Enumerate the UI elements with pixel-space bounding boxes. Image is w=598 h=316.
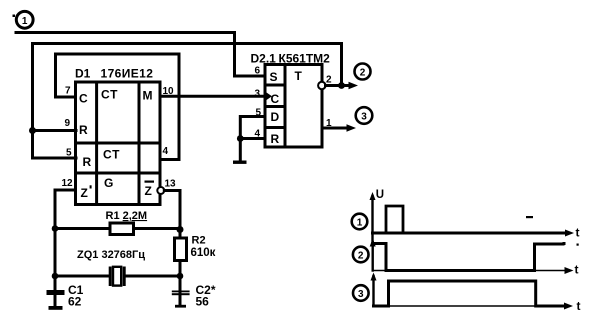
crystal left plate: [109, 268, 112, 285]
svg-text:R1 2,2М: R1 2,2М: [106, 210, 148, 222]
arrow pin 2: [349, 82, 359, 89]
svg-text:S: S: [270, 70, 278, 84]
svg-text:1: 1: [326, 118, 332, 129]
svg-text:D1: D1: [75, 67, 91, 81]
D2 pin numbers: [255, 66, 333, 140]
junction crystal left: [52, 273, 59, 280]
svg-text:M: M: [143, 89, 153, 103]
svg-text:R2: R2: [192, 235, 206, 247]
svg-text:3: 3: [358, 289, 364, 300]
labels D1: [75, 67, 153, 201]
wire right rail below R2: [179, 261, 182, 291]
svg-text:D2.1: D2.1: [251, 52, 277, 66]
wire R1 left: [55, 227, 110, 230]
svg-text:ZQ1 32768Гц: ZQ1 32768Гц: [77, 249, 145, 261]
svg-text:9: 9: [65, 118, 71, 129]
svg-text:13: 13: [165, 179, 177, 190]
axis waveform 2: [372, 242, 374, 271]
junction pin4 ground: [237, 135, 244, 142]
timing diagram: [352, 192, 574, 310]
svg-text:3: 3: [255, 89, 261, 100]
node 1 input marker circle: [16, 11, 33, 28]
wire pin 13 down right rail: [164, 191, 180, 239]
wire pin 5 D to ground: [240, 117, 265, 161]
svg-text:t: t: [575, 263, 579, 277]
svg-text:2: 2: [358, 251, 364, 262]
crystal body: [113, 267, 121, 286]
D2 cell divider D/R: [265, 126, 285, 129]
baseline waveform 1: [373, 232, 568, 235]
pin 13 inversion circle: [157, 187, 164, 194]
pulse waveform 1: [386, 206, 403, 233]
noise dash: [526, 216, 533, 218]
svg-text:2: 2: [326, 75, 332, 86]
svg-text:T: T: [295, 69, 303, 83]
wire pin 4 R to ground rail: [240, 137, 265, 140]
wire pin10 M to D2.1 pin3 C: [160, 95, 265, 98]
wire pin 9 R branch: [33, 129, 77, 132]
wire pin 2 output: [326, 84, 350, 87]
svg-text:1: 1: [357, 218, 363, 229]
D2 left column divider: [284, 65, 287, 148]
svg-text:4: 4: [163, 146, 169, 157]
svg-text:R: R: [79, 123, 88, 137]
capacitor C2: [179, 276, 182, 305]
axis waveform 3: [372, 276, 374, 306]
svg-text:Z: Z: [145, 184, 152, 198]
capacitor C1: [54, 276, 57, 307]
svg-text:5: 5: [256, 108, 262, 119]
marker circle 2: [353, 247, 369, 263]
svg-text:56: 56: [196, 295, 210, 309]
svg-text:C: C: [79, 92, 88, 106]
pin 2 inversion circle: [318, 82, 325, 89]
trace waveform 2: [373, 244, 563, 271]
svg-text:610к: 610к: [191, 247, 216, 259]
D1 left column divider: [95, 82, 98, 205]
svg-text:1: 1: [22, 16, 28, 27]
junction pin 2 feedback: [338, 82, 345, 89]
svg-text:R: R: [271, 132, 280, 146]
resistor R1: [110, 223, 134, 235]
trace waveform 3: [374, 281, 566, 306]
svg-text:12: 12: [62, 178, 74, 189]
D1 pin numbers: [62, 86, 177, 190]
junction R1 left: [52, 225, 59, 232]
svg-text:t: t: [576, 226, 580, 240]
svg-text:CT: CT: [101, 88, 118, 102]
node 2 marker circle: [355, 64, 371, 80]
marker circle 3: [353, 285, 369, 301]
dynamic input triangle pin 3: [265, 92, 272, 102]
svg-text:5: 5: [66, 148, 72, 159]
svg-text:t: t: [577, 299, 581, 313]
junction crystal right: [177, 273, 184, 280]
svg-text:D: D: [271, 110, 280, 124]
ground bar D2: [233, 161, 247, 164]
tick after Z label: [90, 185, 92, 188]
svg-text:62: 62: [68, 295, 82, 309]
wire from node 1 to D2.1 pin 6 S: [16, 33, 265, 77]
D1 section divider 1: [76, 142, 161, 145]
labels D2: [251, 52, 331, 147]
wire feedback D2.1 pin2 to D1 R inputs: [33, 44, 342, 159]
wire pin 1 output: [322, 127, 347, 130]
wire M output loop to C input: [56, 54, 180, 97]
D2 cell divider S/C: [265, 84, 285, 87]
svg-text:4: 4: [255, 129, 261, 140]
arrow pin 1: [347, 124, 357, 131]
svg-text:176ИЕ12: 176ИЕ12: [101, 67, 154, 81]
svg-text:Z: Z: [81, 186, 88, 200]
svg-text:CT: CT: [103, 148, 120, 162]
ground C1: [49, 306, 63, 310]
svg-text:3: 3: [361, 112, 367, 123]
marker circle 1: [352, 214, 368, 230]
D1 right column divider: [138, 82, 141, 205]
wire pin4 vertical to M wire: [160, 54, 179, 160]
crystal ZQ1 wires: [55, 275, 109, 278]
svg-text:U: U: [376, 189, 384, 201]
chip D1 176ИЕ12 outline: [76, 82, 161, 205]
svg-text:7: 7: [65, 86, 71, 97]
t axis waveform 3: [374, 305, 567, 307]
svg-text:R: R: [83, 155, 92, 169]
svg-text:10: 10: [163, 86, 175, 97]
svg-text:C: C: [271, 92, 280, 106]
svg-text:G: G: [104, 176, 113, 190]
D2 cell divider C/D: [265, 105, 285, 108]
svg-text:К561ТМ2: К561ТМ2: [279, 52, 331, 66]
junction R1 right: [177, 226, 184, 233]
D1 section divider 2: [76, 172, 161, 175]
wire pin 12 Z down to oscillator rail: [55, 190, 76, 290]
axis U waveform 1: [371, 196, 373, 241]
resistor R2: [175, 238, 187, 261]
node junction on R wire: [29, 127, 36, 134]
svg-text:6: 6: [255, 66, 261, 77]
ground C2: [175, 305, 186, 308]
node 3 marker circle: [356, 107, 373, 124]
wire R1 right: [134, 227, 181, 230]
svg-text:2: 2: [360, 68, 366, 79]
t axis waveform 2: [373, 270, 567, 272]
part labels: [68, 210, 216, 309]
overbar of Z pin13: [145, 181, 155, 183]
chip D2.1 K561TM2 outline: [265, 65, 322, 148]
crystal right plate: [123, 268, 126, 285]
